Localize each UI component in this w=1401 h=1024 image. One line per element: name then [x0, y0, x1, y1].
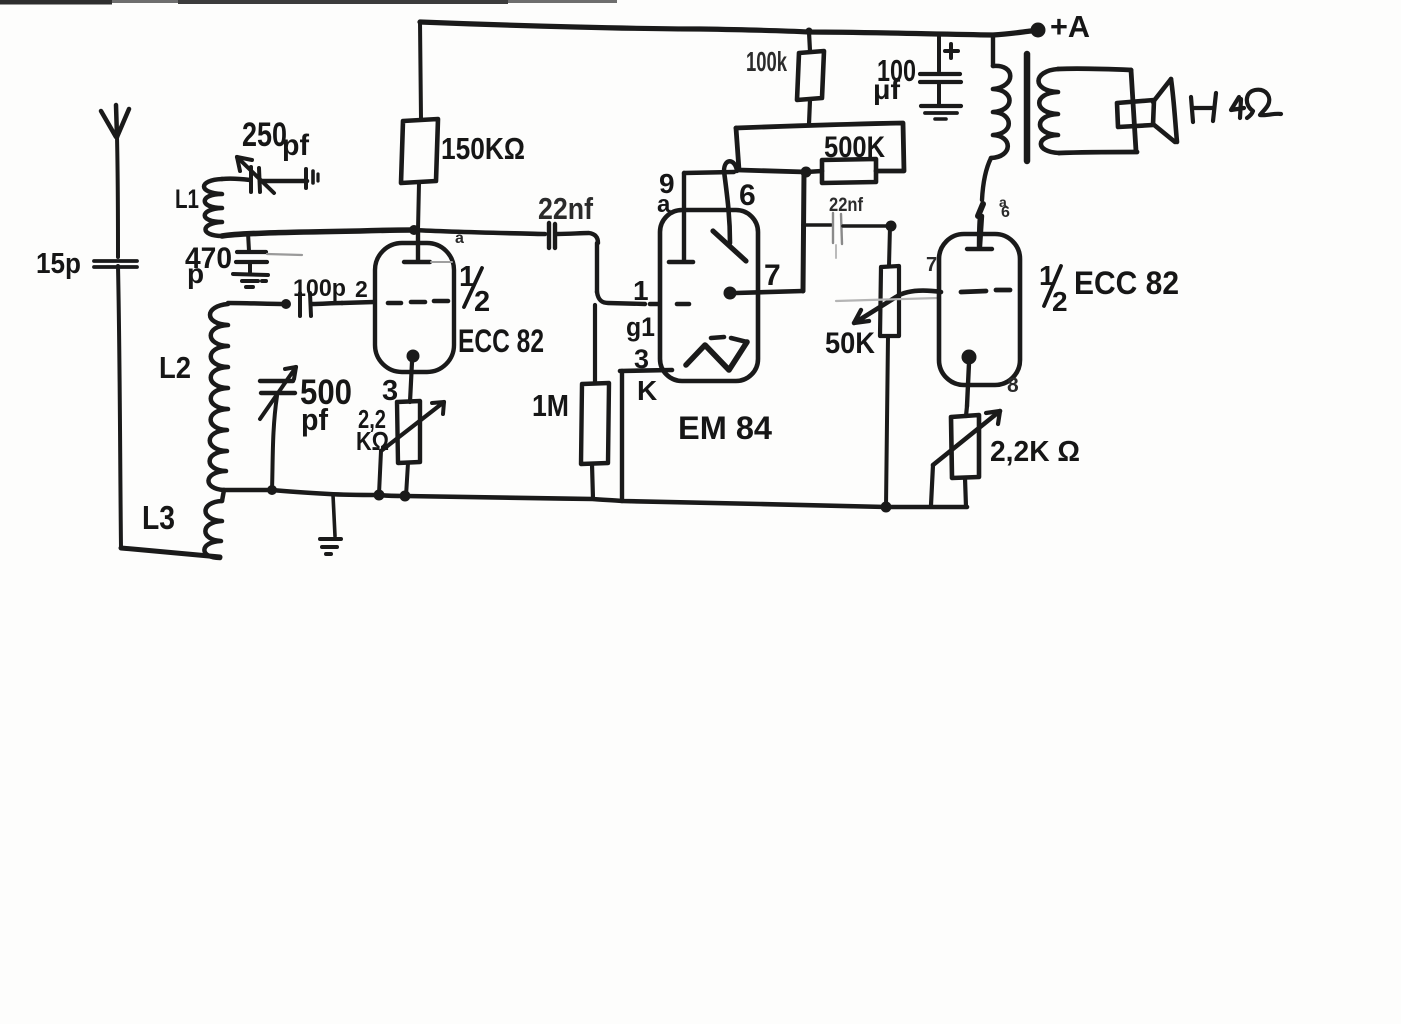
svg-text:a: a [455, 230, 464, 247]
potentiometer 50K [836, 226, 941, 507]
svg-text:1M: 1M [532, 388, 569, 423]
svg-text:pf: pf [301, 402, 329, 437]
speaker 4 ohm [1058, 69, 1177, 153]
resistor 100k [797, 32, 824, 124]
svg-text:3: 3 [382, 375, 398, 407]
svg-text:2: 2 [355, 276, 368, 302]
svg-text:ECC 82: ECC 82 [1074, 265, 1179, 301]
svg-text:6: 6 [739, 179, 756, 212]
svg-text:+A: +A [1050, 9, 1090, 44]
tube EM84 [620, 161, 803, 501]
svg-text:7: 7 [764, 259, 781, 292]
ground symbol mid [320, 495, 341, 554]
svg-text:μf: μf [873, 74, 901, 105]
tube V1 half ECC82 [342, 231, 454, 402]
svg-text:3: 3 [634, 344, 649, 374]
svg-text:100k: 100k [746, 46, 787, 77]
svg-text:EM 84: EM 84 [678, 410, 772, 446]
svg-text:pf: pf [282, 129, 310, 162]
coil L2 [208, 304, 228, 490]
svg-text:7: 7 [926, 254, 937, 276]
resistor 150K [401, 22, 438, 230]
svg-text:150KΩ: 150KΩ [441, 131, 525, 166]
antenna [101, 105, 220, 557]
capacitor 22nf second [803, 213, 897, 258]
transformer T1 [978, 35, 1059, 247]
svg-text:L1: L1 [175, 184, 199, 214]
svg-text:L2: L2 [159, 350, 191, 385]
svg-text:a: a [657, 191, 671, 218]
wire anode rail [222, 225, 545, 236]
tube V2 half ECC82 [939, 216, 1020, 406]
trimmer capacitor 250pf [222, 157, 318, 193]
svg-text:1: 1 [633, 275, 649, 306]
coil L1 [204, 179, 222, 236]
svg-text:p: p [187, 258, 204, 289]
wire top supply [420, 22, 1031, 35]
resistor 1M [581, 305, 609, 499]
svg-text:250: 250 [242, 116, 287, 154]
capacitor 100uF [920, 34, 961, 119]
svg-text:ECC 82: ECC 82 [458, 323, 544, 359]
label speaker 4 Ohm [1191, 90, 1281, 122]
variable capacitor 500pf [260, 367, 296, 490]
resistor 2.2K left [379, 401, 444, 496]
svg-text:50K: 50K [825, 327, 875, 360]
svg-text:K: K [637, 375, 657, 406]
capacitor 470p [236, 233, 302, 272]
capacitor 100p [228, 293, 342, 316]
coil L3 [204, 490, 224, 558]
svg-text:KΩ: KΩ [356, 426, 389, 456]
potentiometer 500K [736, 123, 904, 291]
svg-text:2,2K Ω: 2,2K Ω [990, 436, 1080, 468]
capacitor 15p [94, 261, 137, 267]
svg-text:L3: L3 [142, 499, 175, 536]
ground under 470p [233, 274, 268, 287]
svg-text:2: 2 [1052, 286, 1068, 317]
svg-text:22nf: 22nf [538, 191, 594, 226]
svg-text:g1: g1 [626, 312, 655, 342]
svg-text:500K: 500K [824, 131, 885, 164]
svg-text:100p: 100p [293, 275, 346, 302]
scan artifact top edge [0, 0, 617, 5]
svg-text:15p: 15p [36, 248, 81, 280]
node +A [806, 23, 1046, 38]
resistor 2.2K right [931, 406, 1000, 507]
svg-text:2: 2 [474, 286, 490, 318]
capacitor 22nf first [549, 223, 645, 304]
svg-text:6: 6 [1001, 204, 1010, 221]
ground rail bottom [224, 485, 967, 513]
svg-text:22nf: 22nf [829, 195, 864, 216]
svg-text:8: 8 [1007, 374, 1019, 397]
